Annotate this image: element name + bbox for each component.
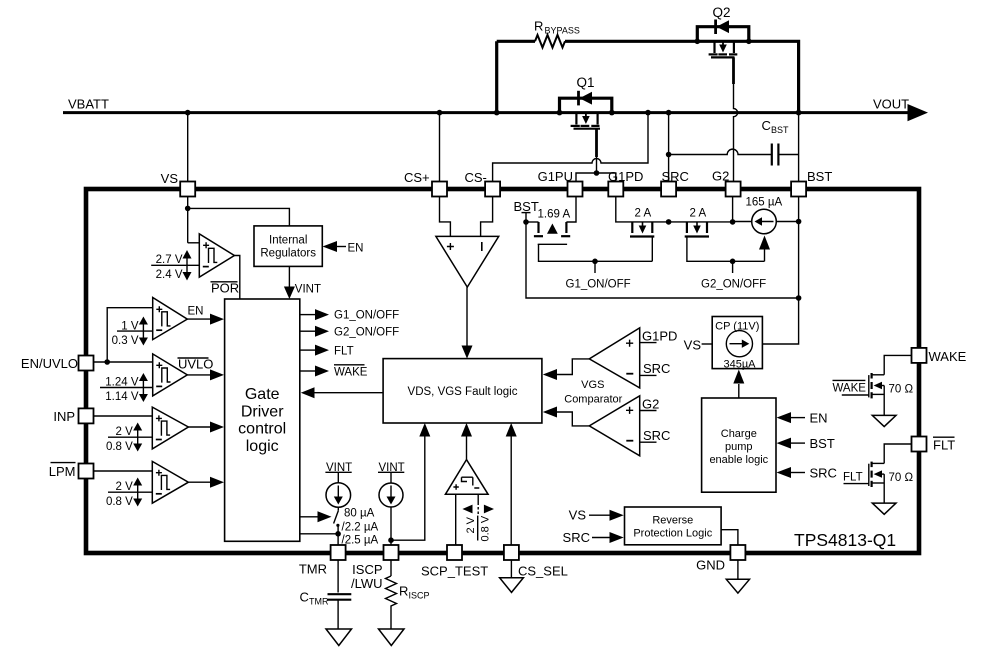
pin INP — [79, 408, 94, 423]
svg-text:Regulators: Regulators — [260, 248, 316, 260]
svg-text:FLT: FLT — [334, 345, 354, 357]
ground (GND) — [726, 579, 749, 593]
wire SRC stub (upper) — [640, 361, 671, 376]
junction dot Q1 left — [557, 110, 563, 116]
junction dot BST/165uA — [796, 219, 802, 225]
pin VS — [180, 182, 195, 197]
wire SRC pin to VBATT — [668, 113, 670, 182]
svg-text:R: R — [534, 19, 543, 34]
wire EN into CPE arrow — [777, 411, 828, 426]
op-amp current sense amplifier — [436, 236, 499, 287]
transistor 1.69 A gate drive (G1 pull-up) — [534, 209, 571, 245]
node labels 80uA 2.2uA 2.5uA — [342, 508, 379, 547]
pin SCP_TEST — [447, 545, 462, 560]
wire LPM pin to comparator — [94, 470, 153, 472]
svg-text:SCP_TEST: SCP_TEST — [421, 564, 488, 579]
svg-text:G1PD: G1PD — [608, 169, 643, 184]
wire G1_ON/OFF rail — [539, 244, 653, 261]
svg-text:VBATT: VBATT — [68, 97, 109, 112]
junction dot Q1 gate node — [594, 170, 600, 176]
wire BST pin to VOUT line — [798, 113, 800, 182]
wire EN comparator output arrow — [187, 306, 224, 325]
svg-text:CS-: CS- — [465, 170, 487, 185]
op-amp EN comparator — [153, 298, 188, 340]
wire SCP comparator - input — [477, 494, 479, 514]
node threshold 2.7V/2.4V — [151, 250, 199, 281]
transistor WAKE output FET — [869, 355, 914, 415]
pin SRC — [661, 182, 676, 197]
ground (CS_SEL) — [500, 578, 524, 593]
svg-text:UVLO: UVLO — [178, 357, 213, 372]
wire switch to TMR pin — [337, 525, 339, 545]
wire ISCP source to pin — [390, 507, 392, 545]
junction dot BST tap — [523, 219, 529, 225]
svg-text:R: R — [399, 584, 408, 599]
svg-text:345µA: 345µA — [723, 359, 756, 371]
pin G1PU — [568, 182, 583, 197]
junction dot G2 node — [730, 219, 736, 225]
svg-text:G1_ON/OFF: G1_ON/OFF — [566, 279, 631, 291]
svg-text:SRC: SRC — [643, 428, 670, 443]
wire 2A driver to G1_ON/OFF rail — [651, 237, 653, 261]
pin G2 — [726, 182, 741, 197]
wire Gate Driver to TMR switch arrow — [300, 511, 332, 522]
wire Q1 gate down to node — [595, 129, 598, 173]
node threshold 1.24V/1.14V — [100, 373, 153, 403]
svg-text:INP: INP — [53, 409, 75, 424]
wire EN into Internal Regulators — [323, 241, 364, 255]
svg-text:SRC: SRC — [810, 466, 837, 481]
wire ISCP node to fault logic arrow — [391, 436, 425, 540]
transistor 2 A driver (G2 pull-down) — [669, 208, 733, 237]
node UVLO label (overline) — [178, 357, 214, 372]
svg-text:Protection Logic: Protection Logic — [633, 528, 712, 540]
junction dot G2_ON/OFF — [730, 259, 736, 265]
diode Q2 body diode — [716, 20, 729, 35]
pin WAKE — [912, 348, 927, 363]
pin LPM (overline) — [79, 464, 94, 479]
svg-text:control: control — [238, 421, 286, 438]
transistor Q1 MOSFET symbol — [571, 114, 600, 129]
current source 80uA/2.2uA/2.5uA — [326, 483, 351, 508]
op-amp POR comparator — [199, 234, 234, 277]
wire VS to POR + input — [188, 242, 200, 244]
svg-text:80 µA: 80 µA — [344, 508, 375, 520]
transistor Q2 — [697, 5, 798, 113]
svg-text:VS: VS — [569, 508, 587, 523]
node BST internal supply tap — [514, 199, 539, 222]
node FLT gate label — [843, 472, 869, 484]
node WAKE gate label (overline) — [833, 380, 869, 395]
wire G2_ON/OFF rail to 165uA arrow — [759, 236, 770, 262]
junction dot ISCP node — [388, 537, 394, 543]
svg-text:VGS: VGS — [581, 379, 604, 391]
svg-text:2 A: 2 A — [690, 208, 707, 220]
svg-text:2 A: 2 A — [635, 208, 652, 220]
op-amp SCP_TEST comparator — [445, 460, 488, 495]
wire RISCP to ground — [390, 611, 392, 629]
wire G1PD stub — [640, 329, 678, 344]
svg-text:70 Ω: 70 Ω — [889, 384, 914, 396]
svg-text:0.8 V: 0.8 V — [480, 515, 492, 541]
wire VS lead to CP — [684, 338, 713, 353]
svg-text:WAKE: WAKE — [334, 366, 368, 378]
box Internal Regulators — [254, 226, 322, 267]
wire CTMR to ground — [337, 600, 339, 629]
svg-text:G1_ON/OFF: G1_ON/OFF — [334, 310, 399, 322]
svg-text:1.24 V: 1.24 V — [105, 377, 139, 389]
ground (TMR) — [326, 629, 352, 646]
current source ISCP — [379, 483, 403, 507]
junction dot SRC driver node — [666, 219, 672, 225]
box Gate Driver control logic — [225, 299, 300, 541]
wire VS pin to VBATT — [187, 113, 189, 182]
svg-text:0.8 V: 0.8 V — [106, 496, 133, 508]
svg-text:logic: logic — [246, 438, 279, 455]
svg-text:VS: VS — [684, 338, 702, 353]
svg-text:Q1: Q1 — [577, 75, 595, 90]
wire GND pin to ground — [737, 560, 739, 579]
wire CPE to CP arrow — [733, 370, 744, 399]
transistor 2 A driver (G1 pull-down) — [616, 197, 669, 237]
node threshold 1V/0.3V — [112, 317, 153, 347]
svg-text:BYPASS: BYPASS — [545, 26, 580, 36]
wire CS+ pin to sense amp — [440, 197, 451, 237]
wire BST tap to 1.69A driver — [526, 221, 539, 223]
ground (WAKE FET) — [872, 415, 896, 426]
node threshold 2V/0.8V (LPM) — [106, 478, 152, 508]
svg-text:/LWU: /LWU — [351, 576, 383, 591]
svg-text:2 V: 2 V — [465, 516, 477, 533]
junction dot Q2 right node — [746, 39, 752, 45]
wire G2 stub — [640, 397, 660, 412]
wire CS+ pin to VBATT — [439, 113, 441, 182]
svg-text:G2_ON/OFF: G2_ON/OFF — [701, 279, 766, 291]
wire G1_ON/OFF stub and label — [566, 261, 631, 290]
IC body TPS4813-Q1 — [86, 189, 919, 553]
node POR label (overline) — [211, 281, 240, 296]
junction dot G1_ON/OFF — [592, 259, 598, 265]
junction dot VS internal — [185, 206, 191, 212]
svg-text:G2: G2 — [712, 169, 729, 184]
wire G2 pin down — [732, 197, 734, 222]
wire VS into Reverse box arrow — [569, 508, 624, 523]
svg-text:GND: GND — [696, 558, 725, 573]
svg-text:Reverse: Reverse — [652, 515, 693, 527]
wire upper VGS comparator to fault logic arrow — [543, 359, 590, 380]
svg-text:VDS, VGS Fault logic: VDS, VGS Fault logic — [408, 386, 518, 398]
box VDS, VGS Fault logic — [383, 359, 542, 423]
svg-text:0.8 V: 0.8 V — [106, 441, 133, 453]
pin CS_SEL — [504, 545, 519, 560]
svg-text:SRC: SRC — [662, 169, 689, 184]
wire INP output arrow — [188, 422, 224, 433]
wire G2_ON/OFF output arrow — [300, 326, 399, 339]
junction dot Q2 right / VOUT — [796, 110, 802, 116]
svg-text:EN: EN — [188, 306, 204, 318]
wire CS- pin to sense amp — [481, 197, 493, 237]
svg-text:FLT: FLT — [843, 472, 863, 484]
svg-text:VS: VS — [161, 171, 179, 186]
svg-text:/2.5 µA: /2.5 µA — [342, 535, 379, 547]
capacitor CBST — [762, 118, 790, 166]
junction dot SRC/VBATT — [666, 110, 672, 116]
wire G2_ON/OFF stub and label — [701, 261, 766, 290]
svg-text:TMR: TMR — [299, 562, 327, 577]
wire SCP_TEST pin to comparator + — [455, 494, 457, 545]
junction dot CS- sense/VBATT — [645, 110, 651, 116]
svg-text:165 µA: 165 µA — [746, 197, 783, 209]
svg-text:VOUT: VOUT — [873, 97, 909, 112]
svg-text:TMR: TMR — [309, 597, 329, 607]
pin EN/UVLO — [79, 356, 94, 371]
svg-text:70 Ω: 70 Ω — [889, 472, 914, 484]
junction dot Q1 right — [609, 110, 615, 116]
wire 2A driver to G2_ON/OFF rail — [687, 237, 765, 261]
svg-text:G1PD: G1PD — [642, 329, 677, 344]
svg-text:1.69 A: 1.69 A — [538, 209, 571, 221]
box Charge pump enable logic — [702, 398, 776, 492]
node VOUT arrowhead — [908, 104, 929, 121]
wire VBATT main line — [63, 111, 908, 114]
resistor RISCP — [386, 576, 430, 611]
op-amp VGS comparator G1PD (upper) — [589, 328, 639, 388]
pin G1PD — [608, 182, 623, 197]
junction dot EN branch — [104, 359, 110, 365]
svg-text:2.7 V: 2.7 V — [156, 254, 183, 266]
svg-text:0.3 V: 0.3 V — [112, 335, 139, 347]
svg-text:WAKE: WAKE — [929, 349, 967, 364]
svg-text:pump: pump — [725, 441, 753, 453]
wire EN/UVLO pin to UVLO + — [94, 361, 153, 363]
svg-text:BST: BST — [810, 436, 835, 451]
wire VINT arrow Internal Regulators to Gate Driver — [284, 266, 321, 299]
wire fault logic to Gate Driver arrow — [301, 387, 383, 398]
node arrowhead into fault logic (left) — [419, 423, 430, 437]
wire Reverse box to GND pin — [721, 530, 738, 545]
pin FLT (overline) — [912, 437, 927, 452]
svg-text:G2: G2 — [642, 397, 659, 412]
wire UVLO output arrow — [187, 369, 224, 380]
pin BST — [791, 182, 806, 197]
svg-text:C: C — [300, 590, 309, 605]
svg-text:1.14 V: 1.14 V — [105, 391, 139, 403]
svg-text:C: C — [762, 118, 771, 133]
svg-text:enable logic: enable logic — [709, 454, 768, 466]
pin TMR — [331, 545, 346, 560]
wire LPM output arrow — [188, 477, 224, 488]
svg-text:POR: POR — [211, 281, 239, 296]
transistor FLT output FET — [869, 444, 914, 503]
wire gate node to G1PU pin — [576, 173, 597, 182]
pin ISCP/LWU — [384, 545, 399, 560]
junction dot SRC/CBST branch — [666, 152, 672, 158]
wire Gate Driver to TMR line — [300, 533, 338, 535]
wire EN/UVLO to EN comparator + — [107, 308, 153, 362]
junction dot BST rail right — [796, 295, 802, 301]
wire VS to Internal Regulators — [188, 208, 290, 226]
wire CS_SEL pin to fault logic arrow — [506, 423, 517, 545]
junction dot Q2 left node — [695, 39, 701, 45]
svg-text:2.4 V: 2.4 V — [156, 269, 183, 281]
wire BST into CPE arrow — [777, 436, 835, 451]
wire sense amp output to fault logic arrow — [462, 287, 473, 359]
svg-text:ISCP: ISCP — [352, 562, 382, 577]
capacitor CTMR — [300, 590, 352, 607]
svg-text:G1PU: G1PU — [538, 169, 573, 184]
wire SCP comparator to fault logic arrow — [461, 423, 472, 460]
svg-text:LPM: LPM — [49, 464, 76, 479]
pin CS- — [485, 182, 500, 197]
wire CBST line (hop over G2 line) — [669, 149, 772, 154]
wire POR output to Gate Driver — [234, 256, 239, 300]
op-amp UVLO comparator — [153, 354, 188, 396]
wire INP pin to comparator — [94, 415, 153, 417]
ground (FLT FET) — [872, 503, 896, 514]
svg-text:EN/UVLO: EN/UVLO — [21, 356, 78, 371]
junction dot CS+/VBATT — [437, 110, 443, 116]
wire SRC into Reverse box arrow — [563, 530, 624, 545]
node threshold 2V/0.8V (INP) — [106, 423, 152, 453]
svg-text:VINT: VINT — [295, 284, 321, 296]
box CP (11V) charge pump — [712, 317, 762, 371]
svg-text:Gate: Gate — [245, 386, 280, 403]
svg-text:BST: BST — [771, 125, 789, 135]
box Reverse Protection Logic — [625, 507, 722, 545]
wire ISCP pin down — [390, 560, 392, 576]
node VGS Comparator label — [564, 379, 622, 405]
ground (ISCP) — [379, 629, 405, 646]
wire SRC into CPE arrow — [777, 466, 837, 481]
op-amp LPM comparator — [152, 461, 188, 503]
svg-text:CS+: CS+ — [404, 170, 430, 185]
svg-text:SRC: SRC — [563, 530, 590, 545]
wire SRC stub (lower) — [640, 428, 671, 443]
svg-text:Q2: Q2 — [713, 5, 731, 20]
svg-text:WAKE: WAKE — [833, 383, 867, 395]
pin CS+ — [432, 182, 447, 197]
svg-text:FLT: FLT — [933, 438, 955, 453]
junction dot TMR line — [335, 531, 341, 537]
wire lower VGS comparator to fault logic arrow — [543, 407, 590, 426]
wire CS- sense line (hop over Q1 gate) — [493, 113, 648, 182]
junction dot VS/VBATT — [185, 110, 191, 116]
wire CBST to BST line — [778, 154, 798, 156]
svg-text:2 V: 2 V — [116, 481, 134, 493]
svg-text:CS_SEL: CS_SEL — [518, 564, 568, 579]
node VINT supply (TMR source) — [325, 462, 352, 483]
svg-text:2 V: 2 V — [116, 426, 134, 438]
op-amp VGS comparator G2 (lower) — [589, 396, 639, 456]
transistor Q2 MOSFET symbol — [709, 42, 738, 57]
wire BST rail down and across — [526, 222, 799, 298]
svg-text:EN: EN — [348, 243, 364, 255]
svg-text:/2.2 µA: /2.2 µA — [342, 521, 379, 533]
svg-text:TPS4813-Q1: TPS4813-Q1 — [794, 530, 896, 550]
wire FLT output arrow — [300, 345, 354, 358]
svg-text:BST: BST — [514, 199, 539, 214]
wire Q2 gate to G2 pin (hop over VBATT) — [734, 57, 738, 181]
node VINT supply (ISCP source) — [378, 462, 405, 483]
op-amp INP comparator — [152, 407, 188, 449]
svg-text:BST: BST — [807, 169, 832, 184]
current source 165 uA — [733, 197, 799, 234]
node threshold arrows 2V/0.8V (SCP) — [462, 505, 494, 542]
pin GND — [730, 545, 745, 560]
svg-text:Internal: Internal — [269, 235, 307, 247]
resistor R_BYPASS — [497, 19, 698, 48]
wire G1PU pin to 1.69A driver — [566, 197, 576, 223]
wire TMR pin down — [337, 560, 339, 593]
svg-text:1 V: 1 V — [121, 321, 139, 333]
wire VS pin internal — [187, 197, 189, 243]
svg-text:Charge: Charge — [721, 428, 757, 440]
svg-text:ISCP: ISCP — [409, 591, 430, 601]
wire gate node to G1PD pin — [597, 173, 616, 182]
diode Q1 body diode — [579, 91, 593, 106]
wire BST pin down to charge pump — [762, 197, 798, 345]
wire R_BYPASS left drop — [495, 41, 498, 112]
switch timer current select — [334, 507, 340, 527]
svg-text:G2_ON/OFF: G2_ON/OFF — [334, 326, 399, 338]
svg-text:Driver: Driver — [241, 403, 284, 420]
svg-text:SRC: SRC — [643, 361, 670, 376]
transistor Q1 — [560, 75, 612, 113]
svg-text:Comparator: Comparator — [564, 393, 622, 405]
wire WAKE output arrow (overline) — [300, 365, 368, 379]
junction dot R_BYPASS/VBATT — [494, 110, 500, 116]
wire CS_SEL to ground — [510, 560, 512, 578]
wire G1_ON/OFF output arrow — [300, 309, 399, 321]
svg-text:EN: EN — [810, 411, 828, 426]
